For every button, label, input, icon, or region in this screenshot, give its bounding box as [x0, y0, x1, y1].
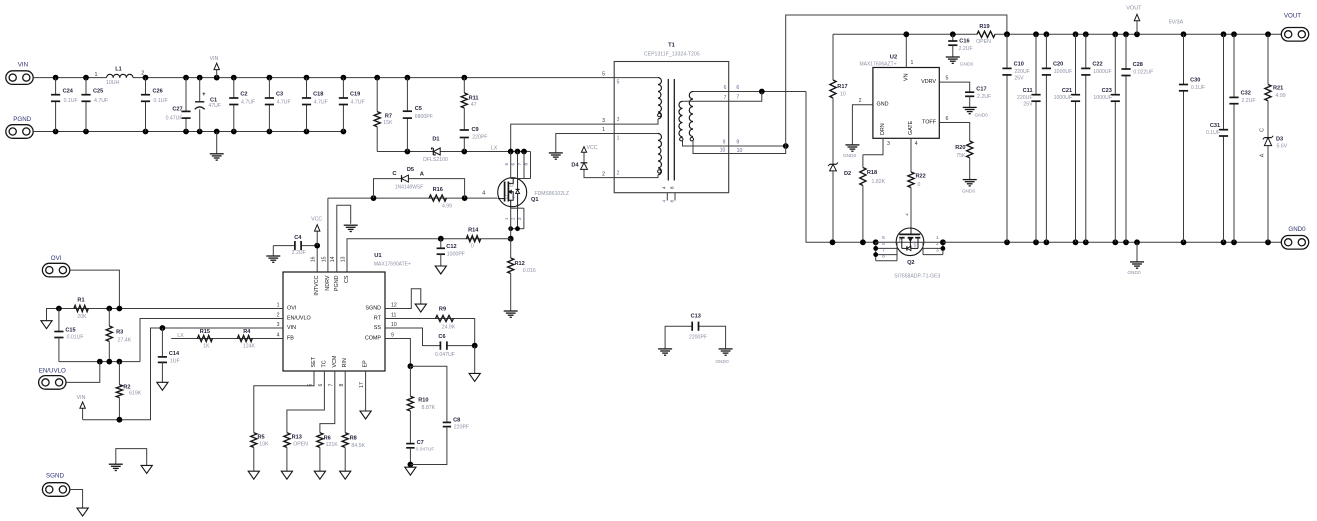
svg-text:10: 10 — [840, 92, 846, 98]
svg-text:C17: C17 — [976, 86, 986, 92]
svg-text:R10: R10 — [418, 397, 428, 403]
svg-text:2200PF: 2200PF — [689, 335, 707, 341]
svg-text:EN/UVLO: EN/UVLO — [287, 316, 311, 322]
svg-text:R1: R1 — [77, 298, 84, 304]
svg-text:1UF: 1UF — [170, 359, 180, 365]
svg-text:0.1UF: 0.1UF — [1206, 130, 1220, 136]
svg-text:2: 2 — [859, 98, 862, 104]
svg-text:GND0: GND0 — [715, 359, 729, 365]
svg-text:1: 1 — [504, 217, 510, 220]
svg-text:OVI: OVI — [287, 306, 296, 312]
svg-text:R6: R6 — [324, 435, 331, 441]
svg-text:D1: D1 — [432, 137, 439, 143]
svg-text:VN: VN — [903, 73, 909, 81]
svg-text:3: 3 — [617, 117, 620, 123]
svg-text:10: 10 — [720, 147, 726, 153]
svg-text:VCC: VCC — [587, 145, 598, 151]
svg-text:4.99: 4.99 — [1276, 93, 1286, 99]
svg-text:L1: L1 — [115, 67, 122, 73]
svg-text:R7: R7 — [385, 114, 392, 120]
svg-text:GND0: GND0 — [975, 113, 989, 119]
svg-text:VCC: VCC — [311, 217, 322, 223]
svg-text:1: 1 — [911, 60, 914, 66]
svg-text:25V: 25V — [1014, 75, 1024, 81]
svg-text:C24: C24 — [63, 88, 74, 94]
svg-text:SI7658ADP-T1-GE3: SI7658ADP-T1-GE3 — [894, 273, 940, 279]
svg-text:C23: C23 — [1102, 88, 1112, 94]
svg-text:8.87K: 8.87K — [422, 405, 436, 411]
svg-text:R12: R12 — [515, 261, 525, 267]
svg-text:C18: C18 — [313, 92, 323, 98]
svg-text:C15: C15 — [65, 327, 75, 333]
svg-text:220PF: 220PF — [454, 425, 469, 431]
svg-text:0.47UF: 0.47UF — [166, 115, 183, 121]
svg-text:15: 15 — [321, 256, 327, 262]
svg-text:124K: 124K — [243, 343, 256, 349]
svg-text:VDRV: VDRV — [921, 79, 936, 85]
svg-text:0.01UF: 0.01UF — [67, 335, 84, 341]
svg-text:24.9K: 24.9K — [442, 324, 456, 330]
svg-text:17: 17 — [359, 382, 365, 388]
svg-text:6: 6 — [724, 85, 727, 91]
svg-text:3: 3 — [602, 118, 605, 124]
svg-text:T1: T1 — [668, 42, 676, 48]
svg-text:R16: R16 — [433, 187, 443, 193]
svg-text:A: A — [1259, 153, 1265, 157]
svg-text:C12: C12 — [446, 244, 456, 250]
svg-text:C13: C13 — [691, 314, 701, 320]
svg-text:20K: 20K — [77, 314, 87, 320]
svg-text:1000UF: 1000UF — [1093, 69, 1111, 75]
svg-text:S: S — [512, 194, 515, 199]
svg-text:11: 11 — [391, 313, 396, 319]
svg-text:2.2UF: 2.2UF — [959, 46, 973, 52]
svg-text:4.99: 4.99 — [442, 203, 452, 209]
svg-text:0.047UF: 0.047UF — [416, 446, 435, 452]
svg-text:C5: C5 — [415, 106, 422, 112]
svg-text:R20: R20 — [955, 145, 965, 151]
svg-text:7: 7 — [328, 383, 334, 386]
svg-text:R5: R5 — [258, 435, 265, 441]
svg-text:Q1: Q1 — [531, 197, 538, 203]
svg-text:16: 16 — [311, 256, 317, 262]
svg-text:C28: C28 — [1133, 62, 1143, 68]
svg-text:C10: C10 — [1014, 62, 1024, 68]
svg-text:VCM: VCM — [332, 355, 338, 367]
svg-text:0.1UF: 0.1UF — [1191, 85, 1205, 91]
svg-text:C16: C16 — [959, 38, 969, 44]
svg-text:1: 1 — [617, 136, 620, 142]
svg-text:2: 2 — [277, 313, 280, 319]
svg-text:+: + — [202, 92, 206, 98]
svg-text:6: 6 — [511, 163, 517, 166]
svg-text:U1: U1 — [374, 253, 382, 259]
svg-text:4: 4 — [662, 200, 668, 203]
svg-text:220UF: 220UF — [1017, 95, 1033, 101]
svg-text:619K: 619K — [129, 391, 142, 397]
svg-text:0.016: 0.016 — [523, 268, 536, 274]
svg-text:U2: U2 — [890, 54, 897, 60]
svg-text:6: 6 — [736, 85, 739, 91]
svg-text:GATE: GATE — [908, 120, 914, 135]
svg-text:R11: R11 — [469, 96, 479, 102]
svg-text:220UF: 220UF — [1014, 69, 1030, 75]
svg-text:5: 5 — [617, 80, 620, 86]
svg-text:1.82K: 1.82K — [872, 179, 886, 185]
svg-text:G: G — [505, 194, 509, 199]
svg-text:47: 47 — [471, 102, 477, 108]
svg-text:COMP: COMP — [365, 336, 382, 342]
svg-text:4.7UF: 4.7UF — [94, 98, 108, 104]
svg-text:C21: C21 — [1062, 88, 1072, 94]
svg-text:D3: D3 — [1276, 136, 1283, 142]
svg-text:4.7UF: 4.7UF — [314, 100, 328, 106]
svg-text:SGND: SGND — [46, 472, 64, 479]
svg-text:7: 7 — [724, 95, 727, 101]
svg-text:CS: CS — [344, 275, 350, 283]
svg-text:1N4148WSF: 1N4148WSF — [395, 184, 424, 190]
svg-text:NDRV: NDRV — [325, 275, 331, 291]
svg-text:1: 1 — [95, 72, 98, 78]
svg-text:EP: EP — [363, 360, 369, 368]
svg-text:SET: SET — [311, 356, 317, 367]
svg-text:GND0: GND0 — [962, 189, 976, 195]
svg-text:GND0: GND0 — [960, 61, 974, 67]
svg-text:2: 2 — [936, 241, 939, 247]
svg-text:Q2: Q2 — [907, 260, 914, 266]
svg-text:15K: 15K — [383, 120, 393, 126]
svg-text:0: 0 — [471, 244, 474, 250]
svg-text:RT: RT — [374, 316, 382, 322]
svg-text:SGND: SGND — [365, 306, 381, 312]
svg-text:GND: GND — [877, 102, 889, 108]
svg-text:LX: LX — [177, 333, 184, 339]
svg-text:3: 3 — [277, 322, 280, 328]
svg-text:2.2UF: 2.2UF — [1241, 98, 1255, 104]
svg-text:R15: R15 — [200, 329, 210, 335]
svg-text:27.4K: 27.4K — [118, 337, 132, 343]
svg-text:2.2UF: 2.2UF — [292, 250, 306, 256]
svg-text:220PF: 220PF — [472, 135, 487, 141]
svg-text:GND0: GND0 — [1127, 270, 1141, 276]
svg-text:VIN: VIN — [287, 325, 296, 331]
svg-text:C25: C25 — [93, 88, 103, 94]
svg-text:OVI: OVI — [51, 255, 62, 262]
svg-text:8: 8 — [670, 200, 676, 203]
svg-text:R14: R14 — [468, 228, 479, 234]
svg-text:10K: 10K — [259, 441, 269, 447]
svg-text:7: 7 — [517, 163, 523, 166]
svg-text:84.5K: 84.5K — [351, 443, 365, 449]
svg-text:14: 14 — [330, 256, 336, 262]
svg-text:4.7UF: 4.7UF — [277, 100, 291, 106]
svg-text:EN/UVLO: EN/UVLO — [39, 367, 66, 374]
svg-text:8: 8 — [339, 383, 345, 386]
svg-text:3: 3 — [887, 141, 890, 147]
svg-text:D2: D2 — [844, 171, 851, 177]
svg-text:C7: C7 — [417, 440, 424, 446]
svg-text:R13: R13 — [292, 435, 302, 441]
svg-text:5: 5 — [946, 75, 949, 81]
svg-text:4.7UF: 4.7UF — [351, 100, 365, 106]
svg-text:5V/3A: 5V/3A — [1169, 19, 1184, 25]
svg-text:0.022UF: 0.022UF — [1133, 69, 1153, 75]
svg-text:1: 1 — [602, 127, 605, 133]
svg-text:5: 5 — [504, 163, 510, 166]
svg-text:6: 6 — [318, 383, 324, 386]
svg-text:C22: C22 — [1092, 62, 1102, 68]
svg-text:75K: 75K — [956, 153, 966, 159]
svg-text:5: 5 — [602, 71, 605, 77]
svg-text:FDMS86102LZ: FDMS86102LZ — [535, 191, 570, 197]
svg-text:9: 9 — [723, 140, 726, 146]
svg-text:8: 8 — [524, 163, 530, 166]
svg-text:13: 13 — [340, 256, 346, 262]
svg-text:4: 4 — [662, 186, 668, 189]
svg-text:6: 6 — [946, 116, 949, 122]
svg-text:1000PF: 1000PF — [447, 252, 465, 258]
svg-text:47UF: 47UF — [208, 103, 221, 109]
svg-text:0.047UF: 0.047UF — [435, 352, 455, 358]
svg-text:8: 8 — [670, 186, 676, 189]
svg-text:C4: C4 — [294, 235, 302, 241]
svg-text:5: 5 — [882, 235, 885, 241]
svg-text:6800PF: 6800PF — [415, 114, 433, 120]
svg-text:GND0: GND0 — [1288, 226, 1306, 233]
svg-text:D5: D5 — [407, 167, 414, 173]
svg-text:DRN: DRN — [880, 123, 886, 135]
svg-text:0.1UF: 0.1UF — [154, 98, 168, 104]
svg-text:C30: C30 — [1190, 78, 1200, 84]
svg-text:SS: SS — [374, 325, 382, 331]
svg-text:4: 4 — [905, 213, 911, 216]
svg-text:1: 1 — [277, 303, 280, 309]
svg-text:10UH: 10UH — [106, 80, 120, 86]
svg-text:VOUT: VOUT — [1284, 13, 1301, 20]
svg-text:C32: C32 — [1241, 91, 1251, 97]
svg-text:OPEN: OPEN — [293, 441, 308, 447]
svg-text:TOFF: TOFF — [922, 120, 937, 126]
svg-text:PGND: PGND — [334, 275, 340, 291]
svg-text:C2: C2 — [240, 92, 247, 98]
svg-text:R9: R9 — [439, 307, 446, 313]
svg-text:1K: 1K — [203, 343, 210, 349]
svg-text:LX: LX — [491, 146, 498, 152]
svg-text:1000UF: 1000UF — [1093, 95, 1111, 101]
svg-text:TC: TC — [321, 360, 327, 367]
svg-text:10: 10 — [391, 322, 397, 328]
svg-text:0.1UF: 0.1UF — [64, 98, 78, 104]
svg-text:0: 0 — [918, 182, 921, 188]
svg-text:5.6V: 5.6V — [1277, 143, 1288, 149]
svg-text:R8: R8 — [350, 435, 357, 441]
svg-text:6: 6 — [882, 241, 885, 247]
svg-text:DFLS2100: DFLS2100 — [423, 157, 448, 163]
svg-text:1000UF: 1000UF — [1054, 95, 1072, 101]
svg-text:C6: C6 — [438, 334, 445, 340]
svg-text:R4: R4 — [243, 329, 251, 335]
svg-text:R18: R18 — [867, 170, 877, 176]
svg-text:C14: C14 — [169, 351, 180, 357]
svg-text:7: 7 — [882, 247, 885, 253]
svg-text:R21: R21 — [1273, 85, 1283, 91]
svg-text:C8: C8 — [453, 417, 460, 423]
svg-text:FB: FB — [287, 336, 294, 342]
svg-text:CEP1311F_13324-T205: CEP1311F_13324-T205 — [644, 52, 700, 58]
svg-text:C27: C27 — [172, 107, 182, 113]
svg-text:1000UF: 1000UF — [1054, 69, 1072, 75]
svg-text:9: 9 — [736, 139, 739, 145]
svg-text:9: 9 — [391, 333, 394, 339]
svg-text:R22: R22 — [916, 174, 926, 180]
svg-text:10: 10 — [737, 148, 743, 154]
svg-text:R17: R17 — [837, 84, 847, 90]
svg-text:121K: 121K — [326, 442, 339, 448]
svg-text:S: S — [914, 243, 917, 248]
svg-text:VIN: VIN — [210, 56, 219, 62]
svg-text:C: C — [1259, 128, 1265, 132]
svg-text:OPEN: OPEN — [976, 39, 991, 45]
svg-text:R19: R19 — [979, 24, 989, 30]
svg-text:C3: C3 — [276, 92, 283, 98]
svg-text:2: 2 — [617, 170, 620, 176]
svg-text:1: 1 — [936, 235, 939, 241]
svg-text:RIN: RIN — [342, 358, 348, 367]
svg-text:8: 8 — [882, 253, 885, 259]
svg-text:MAX17690ATE+: MAX17690ATE+ — [374, 261, 411, 267]
svg-text:2.2UF: 2.2UF — [977, 94, 991, 100]
svg-text:12: 12 — [391, 303, 397, 309]
svg-text:PGND: PGND — [13, 116, 31, 123]
svg-text:MAX17606AZT+: MAX17606AZT+ — [859, 62, 896, 68]
svg-text:INTVCC: INTVCC — [314, 275, 320, 295]
svg-text:3: 3 — [936, 247, 939, 253]
svg-text:GND0: GND0 — [843, 153, 857, 159]
svg-text:4: 4 — [915, 141, 918, 147]
svg-text:C11: C11 — [1023, 88, 1033, 94]
svg-text:4: 4 — [277, 333, 280, 339]
svg-text:C31: C31 — [1210, 123, 1220, 129]
svg-text:4.7UF: 4.7UF — [241, 100, 255, 106]
svg-text:3: 3 — [517, 217, 523, 220]
svg-text:D4: D4 — [571, 163, 579, 169]
svg-text:C9: C9 — [472, 127, 479, 133]
svg-text:C19: C19 — [350, 92, 360, 98]
svg-text:2: 2 — [602, 171, 605, 177]
svg-text:C20: C20 — [1053, 62, 1063, 68]
svg-text:VIN: VIN — [77, 395, 86, 401]
svg-text:R3: R3 — [116, 329, 123, 335]
svg-text:2: 2 — [511, 217, 517, 220]
svg-text:7: 7 — [736, 94, 739, 100]
svg-text:C26: C26 — [153, 88, 163, 94]
svg-text:D: D — [899, 238, 902, 243]
svg-text:VOUT: VOUT — [1126, 5, 1142, 11]
svg-text:25V: 25V — [1023, 102, 1033, 108]
svg-text:VIN: VIN — [18, 62, 28, 69]
